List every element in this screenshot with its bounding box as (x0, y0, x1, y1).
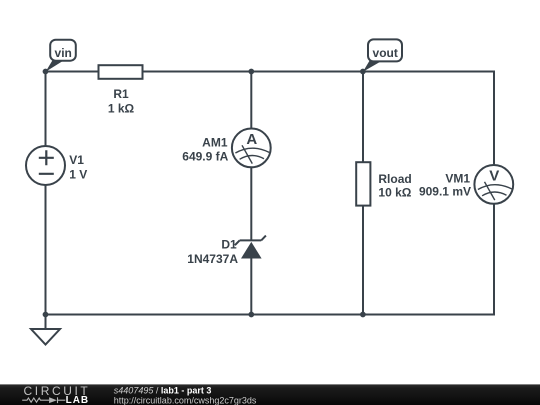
svg-text:LAB: LAB (66, 395, 90, 405)
svg-text:V: V (489, 167, 499, 184)
svg-text:909.1 mV: 909.1 mV (419, 185, 471, 199)
svg-text:A: A (246, 131, 257, 148)
svg-text:1N4737A: 1N4737A (187, 252, 238, 266)
svg-text:D1: D1 (221, 238, 237, 252)
svg-text:VM1: VM1 (445, 172, 470, 186)
svg-text:http://circuitlab.com/cwshg2c7: http://circuitlab.com/cwshg2c7gr3ds (114, 395, 257, 405)
svg-text:s4407495 / lab1 - part 3: s4407495 / lab1 - part 3 (114, 385, 212, 395)
svg-text:AM1: AM1 (202, 136, 228, 150)
svg-text:V1: V1 (69, 153, 84, 167)
svg-text:vin: vin (55, 46, 72, 60)
svg-text:1 kΩ: 1 kΩ (108, 102, 135, 116)
svg-text:R1: R1 (113, 87, 129, 101)
svg-text:649.9 fA: 649.9 fA (182, 150, 228, 164)
svg-text:vout: vout (373, 46, 398, 60)
svg-text:1 V: 1 V (69, 168, 87, 182)
svg-text:10 kΩ: 10 kΩ (378, 186, 411, 200)
svg-text:Rload: Rload (378, 172, 411, 186)
